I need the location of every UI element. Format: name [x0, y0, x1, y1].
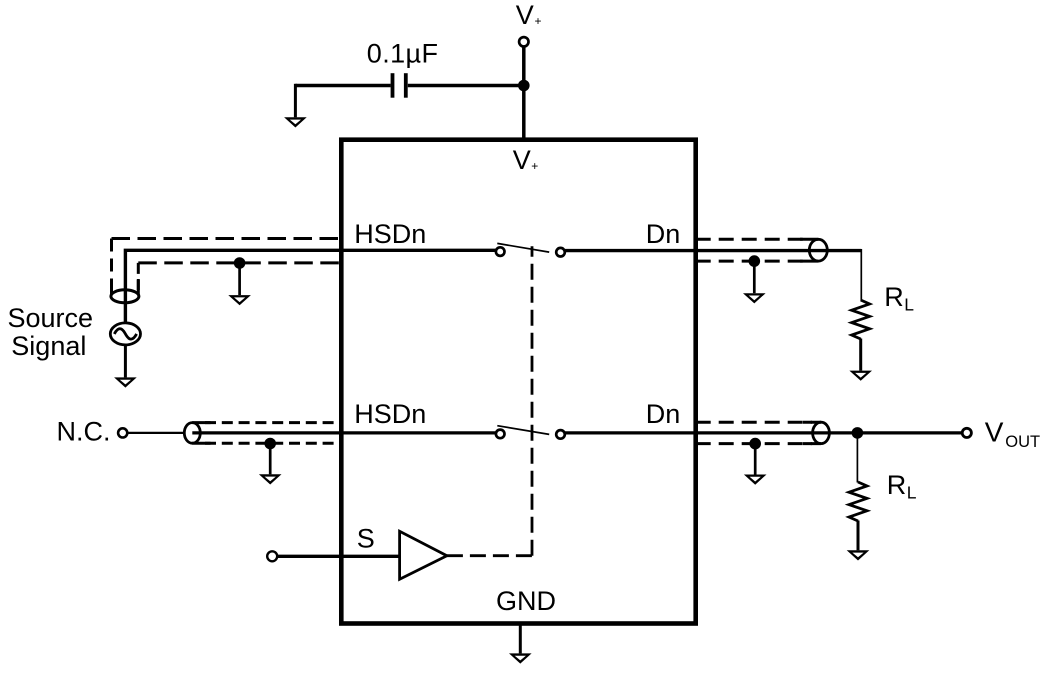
svg-text:Dn: Dn [646, 219, 681, 249]
svg-text:L: L [907, 482, 917, 502]
svg-text:R: R [884, 282, 904, 312]
svg-text:OUT: OUT [1005, 433, 1040, 451]
svg-text:V: V [985, 416, 1004, 447]
svg-text:N.C.: N.C. [57, 416, 111, 446]
svg-text:HSDn: HSDn [354, 219, 426, 249]
svg-text:+: + [535, 14, 542, 28]
svg-text:S: S [357, 523, 375, 553]
svg-text:L: L [904, 294, 914, 314]
svg-text:0.1µF: 0.1µF [367, 39, 439, 69]
svg-text:R: R [887, 470, 907, 500]
svg-text:+: + [531, 159, 538, 173]
svg-text:Source: Source [8, 303, 94, 333]
svg-text:Signal: Signal [11, 331, 86, 361]
svg-text:V: V [513, 145, 531, 175]
svg-text:HSDn: HSDn [354, 399, 426, 429]
svg-text:Dn: Dn [646, 399, 681, 429]
svg-text:V: V [516, 0, 534, 30]
svg-text:GND: GND [496, 586, 556, 616]
